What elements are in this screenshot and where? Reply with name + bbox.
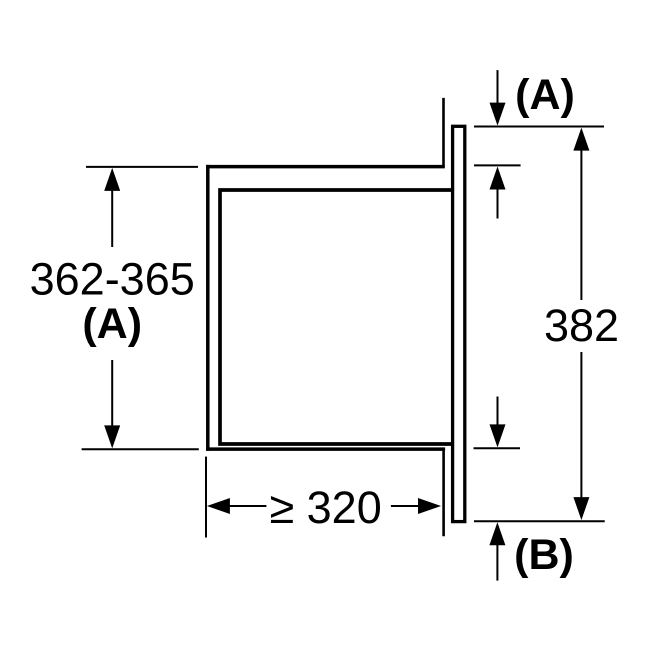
small down arrow (points down to niche bottom tick) [497,397,499,427]
small (A) down arrow (points down to panel top line) [497,70,499,105]
small (B) up arrow (points up to panel bottom line) [496,543,498,580]
382 dimension upper arrow (points up to panel top line) [573,128,589,151]
cabinet outer bottom wall line [206,447,445,451]
small up arrow (points up to niche top tick) [497,188,499,219]
left dimension lower arrow (points down to niche bottom) [111,360,113,426]
cabinet outer top wall line [206,165,445,169]
panel bottom extension line [474,520,605,522]
svg-text:(A): (A) [82,300,142,348]
382 dimension lower arrow (points down to panel bottom line) [580,352,582,499]
svg-text:362-365: 362-365 [30,254,195,305]
appliance inner body outline (open to the right) [220,190,452,444]
niche bottom short tick (right side) [474,447,521,449]
cabinet front edge below niche / right extension line for &#8805;320 [442,449,445,536]
svg-text:382: 382 [544,300,619,351]
svg-text:(A): (A) [515,71,575,119]
svg-text:(B): (B) [514,531,574,579]
&#8805;320 left arrow (points left) [207,498,230,514]
&#8805;320 right arrow (points right) [391,505,419,507]
niche top short tick (right side) [474,164,521,166]
left extension line for &#8805;320 (below niche) [205,457,207,538]
cabinet outer left wall line [206,165,210,451]
top-left extension line (niche top level) [86,166,198,168]
cabinet front edge above niche (vertical line) [442,98,445,167]
panel top extension line [474,126,604,128]
appliance front panel (vertical bar) [453,126,465,521]
left dimension upper arrow (points up to niche top) [111,189,113,247]
svg-text:≥ 320: ≥ 320 [269,482,381,533]
bottom-left extension line (niche bottom level) [82,448,199,450]
